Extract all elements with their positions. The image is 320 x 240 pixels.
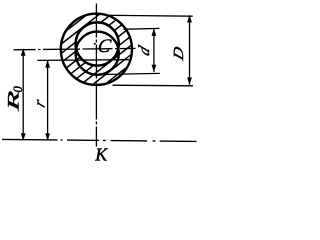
extension line d bottom xyxy=(98,73,160,74)
dimension line D xyxy=(189,15,191,84)
extension line D bottom xyxy=(113,84,194,87)
center dot C xyxy=(94,43,96,45)
outer circle D xyxy=(61,14,132,85)
extension line D top xyxy=(106,14,193,17)
extension line for r xyxy=(38,59,130,62)
dimension line R0 xyxy=(22,49,24,139)
dimension line r xyxy=(47,60,49,139)
vertical centerline xyxy=(95,4,97,147)
svg-text:K: K xyxy=(94,145,108,162)
svg-text:0: 0 xyxy=(11,86,25,93)
phantom circle (displaced hole) xyxy=(76,32,119,75)
dimension line d xyxy=(153,29,155,72)
horizontal centerline xyxy=(14,48,136,49)
axis line K (dash-dot) xyxy=(2,139,197,141)
hole circle d (center C) xyxy=(76,22,119,65)
hatch lines in annulus between outer circle and hole xyxy=(0,0,225,115)
extension line d top xyxy=(124,27,160,30)
